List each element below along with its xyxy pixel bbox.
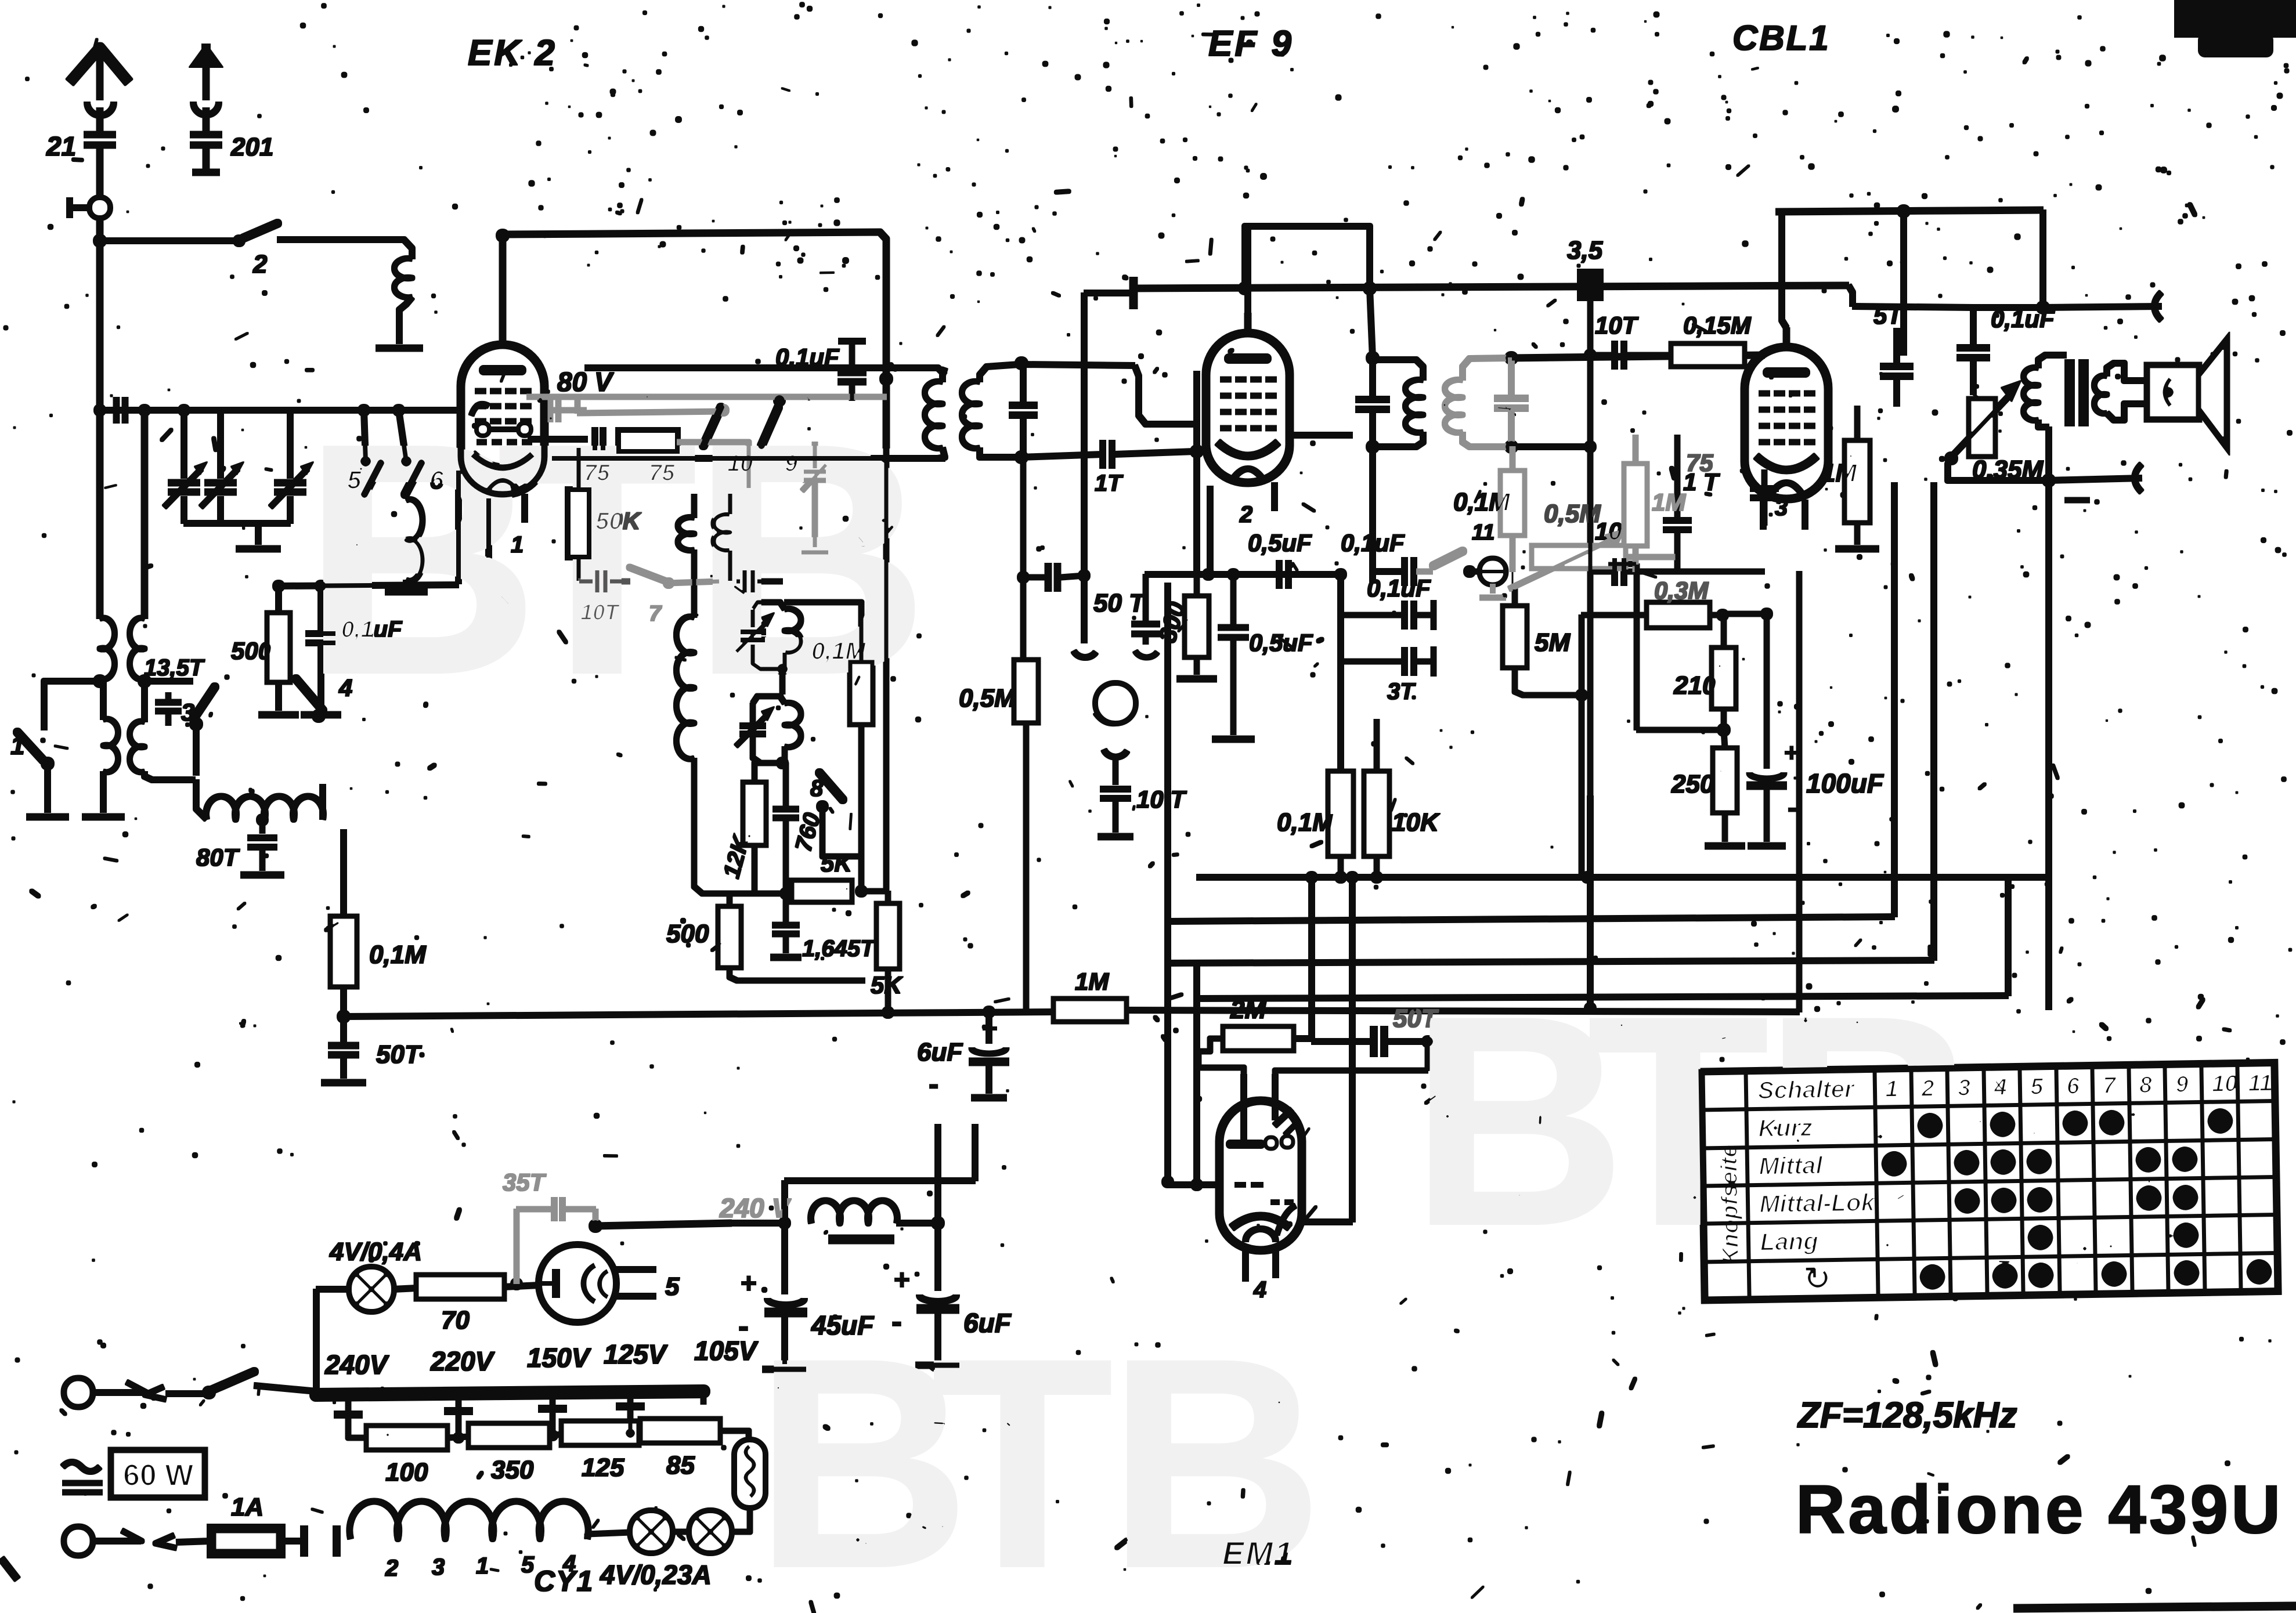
resistor 2M: [1223, 996, 1293, 1050]
wire: [2046, 427, 2052, 1010]
ground: [1836, 546, 1879, 552]
wire: [1511, 444, 1590, 450]
capacitor 100uF: [1723, 608, 1885, 846]
label 80T: [196, 844, 240, 871]
capacitor 35T: [503, 1169, 595, 1283]
resistor 5K (v): [871, 891, 903, 1012]
tuned pair 1 trimmer: [736, 609, 782, 669]
wire EM1 bottom legs: [1246, 1250, 1276, 1281]
resistor 75: [528, 431, 749, 489]
tap 125: [616, 1394, 644, 1438]
wire: [1293, 1036, 1312, 1041]
svg-text:3: 3: [432, 1554, 445, 1580]
svg-text:8: 8: [810, 776, 824, 801]
wire gang bottom: [184, 523, 290, 544]
svg-text:100uF: 100uF: [1806, 768, 1885, 798]
resistor 5M: [1503, 589, 1582, 695]
tap 240: [334, 1398, 362, 1415]
capacitor osc H: [730, 550, 782, 593]
wire bus y1512: [1197, 874, 2049, 880]
label CBL1: [1732, 19, 1831, 57]
switch 7: [630, 567, 720, 626]
svg-text:6uF: 6uF: [963, 1308, 1012, 1338]
svg-text:+: +: [894, 1265, 910, 1296]
svg-text:3,5: 3,5: [1567, 236, 1603, 265]
svg-text:500: 500: [231, 637, 272, 664]
filter choke: [811, 1200, 936, 1223]
switch 9: [761, 407, 798, 476]
ground: [259, 712, 298, 718]
capacitor 0,1uF (c): [1341, 574, 1434, 630]
label 10T (2): [1595, 312, 1639, 339]
resistor 85: [641, 1419, 720, 1480]
tap 150: [539, 1396, 566, 1441]
wire: [97, 145, 103, 197]
wire y707 link: [94, 404, 586, 416]
svg-text:Schalter: Schalter: [1757, 1075, 1855, 1104]
svg-text:0,3M: 0,3M: [1654, 577, 1709, 604]
svg-text:35T: 35T: [503, 1169, 547, 1196]
svg-text:21: 21: [46, 131, 76, 161]
resistor 210: [1673, 615, 1735, 730]
capacitor T2b: [1494, 358, 1528, 447]
IFT2 secondary: [1445, 358, 1509, 447]
wire: [780, 669, 785, 694]
resistor 5K (h): [792, 849, 853, 902]
svg-text:2: 2: [1239, 502, 1252, 527]
label CY1: [534, 1565, 594, 1597]
svg-text:0,5M: 0,5M: [959, 684, 1016, 713]
svg-text:5: 5: [521, 1552, 535, 1578]
wire: [145, 678, 193, 684]
capacitor 0,5uF (a): [1248, 529, 1312, 588]
node: [511, 1278, 522, 1290]
wire: [277, 240, 412, 259]
svg-text:0,1M: 0,1M: [1453, 488, 1511, 516]
label EK 2: [468, 33, 557, 73]
svg-text:-: -: [929, 1068, 938, 1101]
label 5T: [1873, 302, 1904, 329]
tube EM1 interior: [1230, 1109, 1299, 1242]
coil L6: [678, 494, 694, 617]
switch 4: [296, 674, 352, 722]
svg-text:0,5uF: 0,5uF: [1249, 629, 1313, 656]
svg-text:50K: 50K: [595, 507, 642, 534]
wire lamp left: [587, 1532, 630, 1534]
node: [932, 1217, 944, 1229]
label 105V: [694, 1336, 759, 1366]
label EF 9: [1208, 24, 1294, 64]
capacitor 10T: [579, 570, 630, 625]
resistor 1M (CBL1): [1821, 406, 1869, 544]
svg-text:105V: 105V: [694, 1336, 759, 1366]
capacitor 6uF (ps): [891, 1223, 1012, 1365]
trimmer to gnd: [801, 442, 829, 552]
hook: [1104, 750, 1127, 784]
wire EM1 left: [1162, 960, 1219, 1191]
label 125V: [604, 1339, 668, 1369]
label ZF=128,5kHz: [1797, 1395, 2017, 1435]
svg-text:5: 5: [665, 1272, 680, 1301]
svg-text:Mittal-Lok: Mittal-Lok: [1759, 1188, 1876, 1217]
svg-text:4: 4: [338, 674, 352, 701]
coil L3b: [130, 618, 145, 679]
capacitor 50T (EM1): [1312, 1004, 1439, 1057]
svg-text:2: 2: [252, 250, 268, 279]
rectifier CY1: [539, 1245, 680, 1322]
capacitor 10T (pu): [1098, 786, 1187, 837]
top loop wires: [1776, 205, 2043, 355]
label pin 3: [1775, 495, 1788, 520]
wire: [1654, 569, 1764, 574]
svg-text:Radione 439U: Radione 439U: [1796, 1471, 2283, 1548]
wire 105 tap: [703, 1393, 749, 1438]
tube CBL1 interior: [1756, 372, 1817, 493]
wire sec to lamps: [585, 1534, 590, 1539]
node: [2042, 474, 2055, 487]
capacitor 75 (r): [1750, 470, 1778, 525]
switch 6: [399, 410, 444, 494]
choke core: [829, 1235, 894, 1244]
svg-text:1: 1: [1885, 1076, 1898, 1102]
switch 1: [10, 732, 54, 812]
coil L8: [676, 617, 786, 894]
wire: [2049, 478, 2142, 480]
terminal N: [64, 1527, 210, 1555]
label 0,5M: [1544, 500, 1601, 528]
wire: [44, 681, 100, 730]
capacitor 21: [46, 131, 115, 161]
svg-text:1M: 1M: [1821, 459, 1857, 487]
node: [1366, 352, 1379, 364]
svg-text:11: 11: [2248, 1070, 2272, 1097]
svg-text:8: 8: [2139, 1072, 2153, 1098]
svg-text:75: 75: [1686, 449, 1713, 476]
speaker: [2117, 341, 2226, 446]
ground: [27, 814, 68, 820]
capacitor (cath hook): [1132, 574, 1160, 657]
wire: [1021, 364, 1135, 457]
tube EF9 interior: [1218, 359, 1278, 479]
variable capacitor C2: [201, 410, 244, 523]
svg-text:1: 1: [10, 732, 24, 760]
wire: [1114, 451, 1194, 454]
svg-text:9: 9: [2175, 1072, 2189, 1097]
svg-text:150V: 150V: [527, 1343, 591, 1373]
tube EM1 envelope: [1219, 1101, 1302, 1250]
svg-text:5: 5: [2030, 1074, 2044, 1100]
antenna ANT1 symbol: [70, 48, 129, 132]
hook (grid cap): [2154, 292, 2161, 320]
capacitor 80T: [248, 820, 277, 870]
svg-text:CBL1: CBL1: [1732, 19, 1831, 57]
node: [1239, 282, 1376, 295]
wire EF9 plate right: [1290, 432, 1352, 438]
svg-text:0,1M: 0,1M: [1277, 808, 1334, 837]
label EM1: [1222, 1535, 1294, 1571]
wire heater col: [1165, 583, 1171, 1181]
svg-text:B: B: [691, 375, 929, 743]
svg-text:85: 85: [666, 1451, 695, 1480]
lamp 4V/0,23A a: [630, 1511, 672, 1553]
wire: [1198, 1039, 1244, 1100]
fuse 3,5: [1567, 236, 1603, 301]
IFT2 primary: [1373, 360, 1423, 447]
wire 500 top: [702, 893, 730, 894]
svg-text:3: 3: [1958, 1075, 1971, 1101]
bar: [304, 1526, 337, 1556]
svg-text:10: 10: [2212, 1071, 2238, 1097]
svg-text:ZF=128,5kHz: ZF=128,5kHz: [1797, 1395, 2017, 1435]
svg-text:1: 1: [511, 532, 524, 558]
svg-text:3: 3: [1775, 495, 1788, 520]
resistor 0,1M (AVC col): [331, 830, 427, 1014]
capacitor 1T: [1095, 440, 1124, 496]
node: [93, 675, 151, 688]
svg-text:250: 250: [1671, 770, 1714, 798]
node: [337, 1010, 350, 1023]
power transformer winding: [349, 1502, 588, 1539]
svg-text:1M: 1M: [1075, 968, 1109, 995]
svg-text:125: 125: [582, 1453, 624, 1482]
svg-text:220V: 220V: [430, 1346, 495, 1376]
sym mains ac: [63, 1462, 102, 1492]
resistor 0,5M (osc): [959, 660, 1038, 1013]
coil L3a: [100, 618, 114, 679]
page corner mark: [1, 1558, 17, 1579]
wire main left drop: [97, 241, 103, 619]
node: [257, 814, 268, 826]
resistor 0,3M: [1582, 577, 1728, 627]
node: [1505, 352, 1518, 364]
svg-text:10T: 10T: [1595, 312, 1639, 339]
capacitor T2a: [1356, 358, 1389, 447]
switch 3: [181, 687, 215, 775]
coil L4b: [130, 681, 195, 780]
resistor 50K: [568, 447, 642, 581]
svg-text:1: 1: [476, 1553, 489, 1579]
wire EK2 legs: [459, 470, 525, 584]
wire 240V node: [731, 1181, 790, 1229]
node: [589, 1220, 602, 1232]
svg-text:1T: 1T: [1095, 471, 1124, 496]
barretter: [731, 1440, 765, 1532]
node: [1576, 689, 1587, 701]
svg-text:2: 2: [385, 1556, 398, 1581]
svg-text:13,5T: 13,5T: [144, 655, 205, 681]
wire verticals mid: [1312, 877, 1352, 1039]
ground: [1212, 736, 1254, 743]
resistor 250: [1671, 730, 1745, 846]
coil 80T: [196, 780, 323, 819]
switch 8: [810, 773, 861, 856]
svg-text:0,1M: 0,1M: [369, 941, 427, 969]
svg-text:-: -: [1788, 793, 1797, 823]
wire: [595, 1223, 731, 1226]
wire EM1 right: [1302, 920, 1352, 1222]
tube EK2 interior: [472, 370, 533, 491]
fuse 1A: [210, 1493, 302, 1555]
capacitor 3T: [1341, 647, 1434, 704]
svg-text:10K: 10K: [1392, 808, 1441, 837]
page edge bottom right: [2014, 1606, 2296, 1608]
capacitor 6uF: [917, 1012, 1009, 1101]
wire EF9 legs: [1210, 483, 1275, 574]
svg-text:6: 6: [429, 466, 444, 494]
label 10T: [1595, 518, 1645, 545]
wire: [1370, 447, 1376, 583]
wire AVC bus: [344, 1012, 1054, 1017]
wire top to CBL1: [1511, 355, 1764, 358]
wire: [1849, 285, 1853, 306]
capacitor 45uF: [738, 1223, 875, 1369]
label 240 V gray: [719, 1193, 792, 1223]
node A1: [93, 234, 106, 247]
capacitor 50T (AVC): [328, 1022, 422, 1078]
label 13,5T: [144, 655, 205, 681]
switch 5: [347, 410, 381, 494]
wire right col: [1608, 564, 1724, 730]
svg-text:50T: 50T: [376, 1040, 422, 1069]
label 1T: [1683, 468, 1720, 496]
svg-text:0,1M: 0,1M: [811, 637, 866, 664]
wire: [1370, 288, 1373, 358]
svg-text:2M: 2M: [1230, 996, 1266, 1024]
node: [273, 580, 459, 592]
svg-text:+: +: [741, 1268, 757, 1299]
paper watermark: [302, 375, 1979, 1613]
capacitor 0,5uF (b): [1218, 574, 1313, 735]
resistor 10K: [1364, 719, 1441, 877]
lamp 4V/0,4A: [316, 1238, 422, 1393]
svg-text:1M: 1M: [1652, 489, 1686, 516]
tuned pair 1 coil: [753, 602, 801, 669]
tuned pair 2 coil: [753, 694, 801, 763]
terminal L: [64, 1379, 207, 1406]
title Radione 439U: [1796, 1471, 2283, 1548]
resistor 500 (EK2): [231, 586, 290, 710]
wire: [100, 238, 238, 244]
resistor 100: [348, 1416, 447, 1487]
tube EK2 envelope: [461, 345, 544, 494]
wire tone line: [1853, 306, 2161, 308]
potentiometer 0,5M: [1509, 529, 1677, 589]
node: [780, 885, 867, 899]
box 60W: [111, 1451, 204, 1497]
svg-text:↻: ↻: [1803, 1260, 1831, 1297]
capacitor 201: [190, 133, 273, 161]
wire: [1335, 569, 1346, 772]
svg-text:125V: 125V: [604, 1339, 668, 1369]
resistor 0,15M: [1654, 312, 1764, 366]
capacitor 0,1uF (det): [1341, 529, 1414, 585]
label 150V: [527, 1343, 591, 1373]
svg-text:1A: 1A: [231, 1493, 263, 1521]
svg-text:10: 10: [727, 451, 753, 476]
capacitor T1: [1009, 363, 1037, 660]
capacitor 75: [595, 428, 603, 451]
wire AVC vertical: [1074, 293, 1096, 657]
variable capacitor C3: [270, 410, 313, 523]
capacitor 10T (2): [1590, 341, 1654, 369]
wire bus y1716: [1197, 877, 2008, 999]
wire 2735 col: [1584, 301, 1596, 796]
svg-text:0,5uF: 0,5uF: [1248, 529, 1312, 556]
capacitor 1T (r): [1663, 435, 1691, 572]
svg-text:4V/0,4A: 4V/0,4A: [329, 1238, 422, 1266]
svg-text:2: 2: [1920, 1076, 1934, 1101]
wire: [97, 217, 103, 244]
coil L4a: [103, 681, 118, 812]
switch table (Knopfseite): [1702, 1064, 2277, 1300]
potentiometer 0,35M: [1945, 381, 2049, 484]
svg-text:Knopfseite: Knopfseite: [1716, 1144, 1743, 1264]
ground: [385, 589, 427, 595]
resistor 0,1M (EF9): [1277, 772, 1353, 877]
grid hook: [471, 404, 489, 415]
resistor 125: [549, 1422, 638, 1482]
coil L7: [714, 493, 730, 551]
output transformer secondary: [2094, 363, 2124, 420]
svg-text:240 V: 240 V: [719, 1193, 792, 1223]
ground: [241, 872, 284, 878]
wire loop above EF9: [1245, 226, 1370, 288]
svg-text:10T: 10T: [580, 601, 620, 625]
hook (output): [2135, 464, 2142, 492]
label 50T (osc): [1093, 589, 1146, 617]
tap 220: [445, 1397, 472, 1443]
label 760: [790, 810, 825, 854]
wire: [1584, 572, 1799, 1014]
svg-text:6: 6: [2066, 1073, 2080, 1099]
node: [882, 1006, 995, 1018]
resistor 0,1M (osc): [785, 602, 872, 891]
variable capacitor C1: [164, 410, 207, 523]
capacitor osc2: [773, 763, 799, 894]
ground: [236, 546, 280, 552]
svg-text:7: 7: [649, 602, 662, 626]
switch 11: [1416, 520, 1494, 577]
wire EF9 col: [1194, 371, 1200, 574]
svg-text:Mittal: Mittal: [1759, 1151, 1824, 1180]
label pin 2: [1239, 502, 1252, 527]
svg-text:5K: 5K: [821, 849, 853, 877]
resistor 300: [1153, 574, 1208, 674]
capacitor series: [117, 397, 125, 423]
label 80 V: [557, 367, 614, 397]
node: [777, 757, 788, 769]
svg-text:11: 11: [1472, 520, 1494, 545]
gray wire EK2 top right: [527, 395, 886, 400]
resistor 350: [447, 1424, 549, 1484]
label pin 1: [511, 532, 524, 558]
capacitor 13,5T: [156, 693, 181, 725]
ground: [1177, 676, 1216, 682]
svg-text:0,1uF: 0,1uF: [1341, 529, 1405, 556]
resistor 12K: [719, 763, 782, 894]
output transformer primary: [2024, 355, 2066, 427]
svg-text:350: 350: [491, 1456, 534, 1484]
svg-text:0,1uF: 0,1uF: [341, 617, 403, 642]
tube EF9 envelope: [1206, 333, 1290, 483]
ground: [322, 1080, 366, 1086]
pickup circle: [1096, 683, 1135, 723]
ground: [82, 814, 124, 820]
label 4: [1253, 1277, 1266, 1303]
labels 2 3 1 5 4: [385, 1551, 576, 1581]
node: [1717, 724, 1730, 736]
svg-text:EK 2: EK 2: [468, 33, 557, 73]
